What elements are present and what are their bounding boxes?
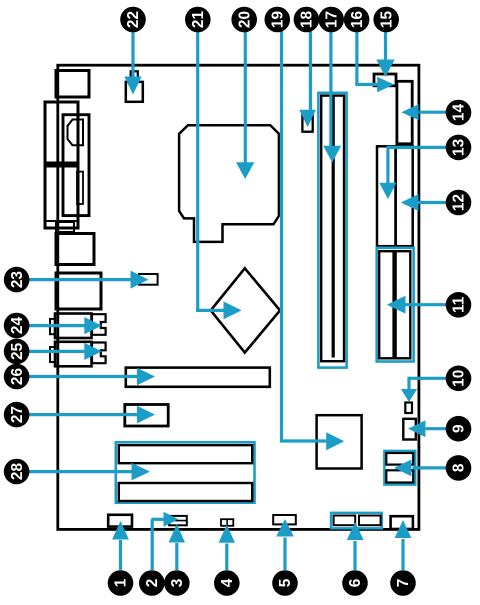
connector 9	[403, 419, 416, 440]
audio jack 25 left tab	[50, 347, 55, 362]
DIMM 28 highlight	[116, 442, 255, 502]
connector 27	[125, 405, 168, 427]
callout 22	[120, 7, 146, 33]
svg-text:18: 18	[299, 11, 316, 29]
leader arrow 1	[112, 521, 129, 570]
svg-text:4: 4	[219, 578, 236, 587]
rear I/O PS/2 port B	[56, 234, 94, 265]
callout 17	[318, 7, 344, 33]
svg-text:19: 19	[270, 11, 287, 28]
leader arrow 14	[401, 104, 446, 120]
connector 6 highlight	[331, 513, 382, 529]
svg-text:7: 7	[395, 579, 412, 588]
rear I/O USB/LAN block	[56, 273, 101, 309]
connector 14	[397, 81, 412, 144]
chip 20 (heatsink)	[179, 125, 279, 242]
svg-text:9: 9	[451, 424, 468, 433]
leader arrow 19	[280, 31, 344, 450]
leader arrow 13	[379, 146, 446, 199]
slot 17 body	[321, 96, 344, 362]
connector 1	[108, 515, 132, 527]
svg-text:11: 11	[451, 296, 468, 313]
leader arrow 25	[29, 343, 102, 360]
callout 23	[4, 267, 30, 293]
rear I/O slim insert	[77, 172, 83, 204]
callout 20	[231, 7, 257, 33]
callout 19	[265, 7, 291, 33]
leader arrow 15	[376, 31, 394, 77]
connector 8 upper	[386, 453, 413, 465]
rear I/O parallel port lower	[45, 166, 78, 228]
leader arrow 11	[387, 296, 447, 314]
connector 15	[374, 74, 396, 86]
leader arrow 6	[347, 522, 364, 570]
leader arrow 18	[299, 31, 316, 127]
rear I/O PS/2 port A	[56, 71, 89, 98]
svg-text:22: 22	[125, 11, 142, 28]
svg-text:3: 3	[169, 579, 186, 588]
leader arrow 16	[355, 31, 394, 92]
leader arrow 20	[236, 31, 254, 179]
callout 10	[446, 366, 472, 392]
leader arrow 17	[323, 31, 341, 163]
callout 25	[4, 339, 30, 365]
callout 7	[390, 570, 416, 596]
callout 18	[294, 7, 320, 33]
callout 2	[139, 570, 165, 596]
leader arrow 28	[29, 463, 150, 481]
leader arrow 23	[29, 271, 149, 289]
audio jack 24 right tab	[92, 314, 106, 335]
svg-text:2: 2	[144, 579, 161, 588]
svg-text:26: 26	[9, 368, 26, 385]
audio jack 24 left tab	[50, 319, 55, 334]
rear I/O D-sub insert	[68, 120, 84, 146]
callout 14	[446, 100, 472, 126]
rear I/O small box	[56, 222, 74, 232]
callout 21	[185, 7, 211, 33]
slot 11 divider	[392, 252, 396, 358]
callout 24	[4, 313, 30, 339]
callout 6	[342, 570, 368, 596]
connector 6 left	[334, 516, 356, 526]
connector 4 body	[221, 519, 233, 526]
leader arrow 3	[169, 524, 185, 570]
callout 26	[4, 364, 30, 390]
callout 8	[446, 455, 472, 481]
connector 8 lower	[386, 470, 413, 482]
svg-text:21: 21	[190, 11, 207, 29]
leader arrow 22	[124, 31, 141, 95]
slot 17 highlight	[318, 93, 346, 368]
connector 12	[396, 146, 413, 246]
svg-text:6: 6	[347, 579, 364, 588]
DIMM 28 slot A	[119, 445, 252, 463]
audio jack 24 body	[55, 314, 92, 339]
leader arrow 9	[408, 420, 446, 437]
svg-text:14: 14	[451, 104, 468, 122]
connector 8 highlight	[384, 451, 415, 485]
leader arrow 26	[29, 368, 155, 386]
connector 18	[302, 115, 312, 132]
slot 17 divider	[332, 97, 335, 358]
svg-text:8: 8	[451, 463, 468, 472]
svg-text:17: 17	[323, 11, 340, 28]
slot 26	[126, 368, 270, 387]
callout 27	[4, 402, 30, 428]
callout 11	[446, 292, 472, 318]
leader arrow 24	[29, 317, 102, 334]
CPU socket 21 (diamond)	[211, 268, 280, 352]
rear I/O bottom line	[45, 220, 78, 222]
leader arrow 7	[395, 520, 412, 570]
callout 4	[214, 570, 240, 596]
connector 13	[377, 146, 396, 246]
connector 22 tab	[131, 71, 138, 82]
leader arrow 8	[394, 460, 447, 477]
callout 15	[373, 7, 399, 33]
svg-text:10: 10	[451, 370, 468, 387]
leader arrow 2	[151, 512, 178, 570]
callout 12	[446, 190, 472, 216]
svg-text:1: 1	[113, 578, 130, 587]
leader arrow 21	[196, 31, 241, 319]
callout 9	[446, 416, 472, 442]
svg-text:20: 20	[236, 11, 253, 28]
audio jack 25 body	[55, 342, 92, 367]
leader arrow 5	[276, 519, 294, 570]
svg-text:15: 15	[378, 11, 395, 29]
callout 13	[446, 135, 472, 161]
callout 1	[108, 570, 134, 596]
leader arrow 27	[29, 406, 155, 424]
audio jack 25 right tab	[92, 343, 106, 364]
DIMM 28 slot B	[119, 483, 252, 501]
rear I/O parallel port upper	[45, 102, 78, 163]
motherboard outline	[58, 65, 419, 529]
slot 11 body	[379, 251, 410, 358]
svg-text:13: 13	[451, 139, 468, 156]
svg-text:25: 25	[9, 342, 26, 360]
svg-text:28: 28	[9, 463, 26, 481]
connector 22 body	[126, 82, 143, 102]
leader arrow 12	[401, 194, 447, 211]
connector 2/3 body	[169, 516, 187, 525]
callout 5	[272, 570, 298, 596]
connector 10	[405, 403, 412, 414]
svg-text:12: 12	[451, 194, 468, 211]
chip 19 (southbridge)	[317, 415, 362, 468]
connector 5	[273, 515, 296, 524]
svg-text:24: 24	[9, 317, 26, 335]
leader arrow 10	[401, 377, 447, 402]
callout 28	[4, 459, 30, 485]
svg-text:27: 27	[9, 406, 26, 423]
callout 3	[164, 570, 190, 596]
slot 11 highlight	[377, 248, 414, 362]
svg-text:16: 16	[349, 11, 366, 28]
connector 7	[391, 516, 413, 529]
svg-text:5: 5	[277, 578, 294, 587]
leader arrow 4	[219, 525, 235, 570]
svg-text:23: 23	[9, 271, 26, 288]
connector 23	[139, 274, 158, 285]
connector 6 right	[359, 516, 381, 526]
connector 2/3 divider	[169, 520, 187, 522]
connector 4 divider	[226, 519, 228, 526]
callout 16	[344, 7, 370, 33]
rear I/O serial connector body	[63, 115, 89, 216]
